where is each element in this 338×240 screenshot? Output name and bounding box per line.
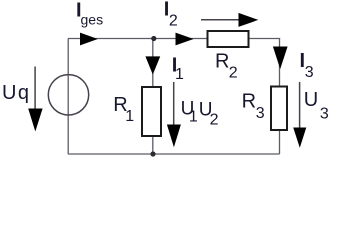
- svg-text:U: U: [304, 89, 318, 111]
- svg-text:1: 1: [175, 66, 184, 83]
- wire left branch: [67, 39, 69, 155]
- label Iges: [76, 0, 103, 28]
- current arrow I1 head: [145, 56, 160, 74]
- label I2: [164, 0, 178, 29]
- svg-text:1: 1: [125, 108, 134, 125]
- node junction bottom: [150, 151, 155, 156]
- svg-text:3: 3: [256, 105, 265, 122]
- voltage arrow U1: [167, 82, 181, 147]
- wire middle branch lower: [152, 136, 154, 155]
- direction arrow above R2: [201, 13, 258, 27]
- node junction top: [151, 36, 156, 41]
- voltage source Uq circle: [48, 75, 88, 115]
- wire right branch lower: [279, 131, 281, 155]
- wire middle branch upper: [152, 39, 154, 88]
- label R3: [242, 91, 265, 122]
- svg-text:ges: ges: [81, 12, 104, 28]
- current arrow Iges head: [80, 33, 98, 46]
- resistor R3: [271, 87, 287, 131]
- label U1: [181, 98, 198, 125]
- svg-text:3: 3: [305, 64, 314, 81]
- current arrow I3 head: [273, 47, 288, 70]
- label R1: [113, 94, 134, 125]
- voltage arrow Uq: [28, 67, 42, 132]
- svg-text:U: U: [2, 82, 16, 104]
- label U2: [199, 99, 219, 128]
- svg-text:2: 2: [169, 12, 178, 29]
- svg-text:2: 2: [210, 112, 219, 129]
- label I1: [172, 55, 184, 83]
- voltage arrow U3: [293, 82, 306, 148]
- svg-text:R: R: [215, 51, 229, 73]
- svg-text:R: R: [242, 91, 256, 113]
- svg-text:q: q: [18, 82, 29, 104]
- svg-text:1: 1: [189, 109, 198, 126]
- current arrow I2 head: [176, 33, 194, 46]
- wire top-left segment: [68, 38, 207, 40]
- wire right branch upper: [279, 39, 281, 87]
- wire top-right segment: [250, 38, 281, 40]
- label I3: [300, 50, 314, 81]
- resistor R1: [142, 87, 161, 136]
- label R2: [215, 51, 238, 82]
- svg-text:2: 2: [229, 65, 238, 82]
- resistor R2: [208, 31, 249, 47]
- svg-text:3: 3: [320, 106, 329, 123]
- wire bottom: [68, 153, 280, 155]
- label U3: [304, 89, 329, 123]
